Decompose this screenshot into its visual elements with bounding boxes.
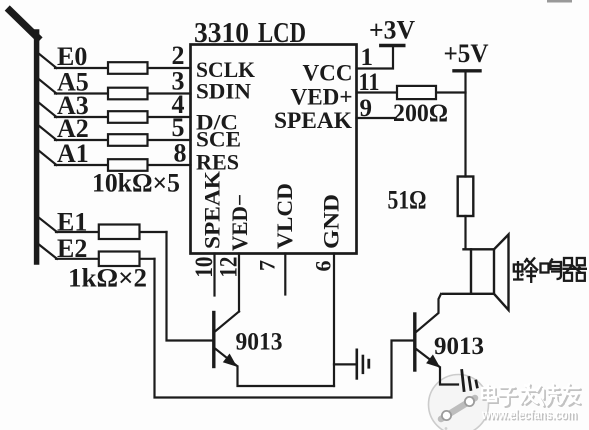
svg-text:6: 6 [311, 261, 336, 272]
svg-text:SPEAK: SPEAK [200, 171, 225, 249]
svg-text:51Ω: 51Ω [388, 186, 427, 215]
svg-text:VED+: VED+ [291, 85, 353, 110]
svg-text:8: 8 [174, 139, 187, 168]
svg-text:GND: GND [319, 194, 344, 249]
svg-text:7: 7 [255, 260, 280, 271]
svg-text:SDIN: SDIN [196, 78, 251, 103]
svg-text:E1: E1 [57, 208, 87, 237]
svg-text:www.elecfans.com: www.elecfans.com [481, 406, 577, 422]
svg-text:9013: 9013 [236, 327, 283, 356]
svg-text:LCD: LCD [258, 18, 306, 49]
svg-text:VLCD: VLCD [272, 183, 297, 249]
svg-text:1kΩ×2: 1kΩ×2 [68, 264, 147, 293]
svg-text:1: 1 [361, 44, 374, 71]
svg-text:RES: RES [196, 150, 239, 175]
svg-text:VED−: VED− [227, 194, 252, 251]
svg-text:11: 11 [359, 69, 380, 96]
svg-text:10kΩ×5: 10kΩ×5 [92, 169, 180, 198]
svg-text:9: 9 [360, 95, 373, 122]
svg-text:E2: E2 [57, 234, 87, 263]
svg-text:A1: A1 [57, 139, 89, 168]
svg-text:SPEAK: SPEAK [274, 108, 352, 133]
svg-text:3310: 3310 [194, 18, 249, 49]
svg-text:SCE: SCE [196, 127, 241, 152]
svg-text:+3V: +3V [369, 16, 415, 45]
svg-text:+5V: +5V [444, 39, 489, 68]
svg-text:10: 10 [191, 257, 218, 278]
svg-text:12: 12 [216, 257, 243, 278]
svg-text:VCC: VCC [303, 61, 353, 86]
svg-text:200Ω: 200Ω [393, 100, 448, 127]
svg-text:9013: 9013 [434, 331, 484, 360]
